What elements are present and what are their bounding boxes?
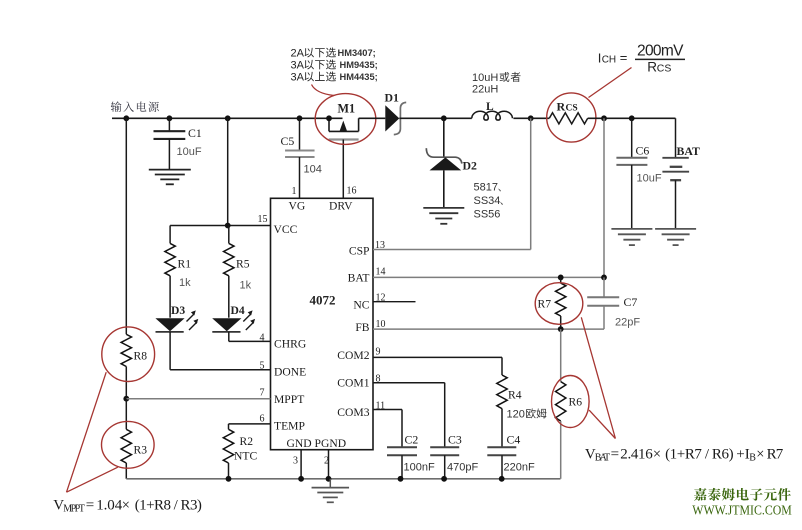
wire CSP horizontal to pin 13 [373,249,531,251]
node PGND pin2 junction [326,476,332,482]
resistor R6 [556,382,566,479]
svg-text:DONE: DONE [274,366,306,379]
node CSP tap junction [528,115,534,121]
svg-text:16: 16 [347,186,357,197]
label C1 [188,126,202,140]
wire C5 branch [299,118,301,150]
value 100nF for C2 [404,462,435,474]
pin name NC [353,299,369,312]
resistor R7 [556,277,566,329]
annotation circle around Rcs [547,93,596,142]
label C6 [636,144,650,158]
value 22pF for C7 [615,317,640,329]
svg-text:9: 9 [376,347,381,358]
node VCC/R5 junction [225,223,231,229]
annotation leader from note to M1 circle [312,85,335,96]
svg-text:3: 3 [293,456,298,467]
led D3 [155,310,198,332]
diode D1 [385,102,406,134]
label R2 [240,435,254,448]
watermark line1 [694,488,791,501]
annotation leader R3 to VMPPT formula [67,467,118,492]
ic U1 4072 outline [271,198,374,449]
node C1 junction [167,115,173,121]
label M1 [338,102,356,116]
svg-text:14: 14 [376,267,386,278]
svg-text:C2: C2 [405,433,419,447]
svg-text:10uF: 10uF [177,146,202,158]
svg-text:=: = [611,446,619,462]
capacitor C1 [154,131,186,169]
wire left vertical rail to R8 [125,118,127,334]
svg-text:HM9435;: HM9435; [340,60,378,70]
pin name GND PGND [287,437,347,450]
svg-text:6: 6 [260,414,265,425]
svg-text:+I: +I [736,446,749,462]
pin 6 label [260,414,265,425]
pin name COM2 [337,349,369,362]
svg-text:R4: R4 [508,389,522,402]
pin name VCC [274,223,298,236]
capacitor C2 [387,447,417,479]
label R4 [508,389,522,402]
svg-text:R5: R5 [236,258,250,271]
wire CSP vertical [530,118,532,249]
svg-text:200mV: 200mV [637,43,684,60]
pin name BAT [348,272,370,285]
value 120 ohm for R4 [507,408,547,420]
value D2 types line2 [474,195,503,207]
svg-text:BAT: BAT [677,144,701,158]
node MPPT junction [123,396,129,402]
wire D1 to L [399,117,472,119]
label D1 [385,91,400,105]
svg-text:D1: D1 [385,91,400,105]
resistor R8 [121,334,131,398]
value 10uF for C6 [637,173,662,185]
node C4 bottom junction [499,476,505,482]
wire D2 branch [443,118,445,157]
svg-text:×: × [653,446,661,462]
inductor L [472,111,513,120]
pin 12 label [376,293,386,304]
annotation circle around M1 [315,94,376,145]
svg-text:C1: C1 [188,126,202,140]
wire MPPT line [126,398,270,400]
svg-text:10uH: 10uH [472,72,498,84]
svg-text:×: × [756,446,764,462]
wire BAT pin line [373,276,604,278]
annotation leader R7 to VBAT formula [581,317,615,438]
transistor M1 body [329,118,359,198]
svg-text:B: B [749,453,756,464]
node C5 tap junction [297,115,303,121]
svg-text:HM4435;: HM4435; [340,72,378,82]
label C3 [448,433,462,447]
watermark line2 [692,503,792,518]
wire TEMP pin line [229,423,271,425]
wire NC stub [373,301,416,303]
svg-text:TEMP: TEMP [274,420,305,433]
svg-text:BAT: BAT [595,453,610,464]
svg-text:SS56: SS56 [474,209,501,221]
svg-text:COM1: COM1 [337,377,369,390]
svg-text:220nF: 220nF [504,462,535,474]
pin name DRV [329,200,353,213]
wire PGND pin 2 [328,450,330,479]
label D2 [463,159,478,173]
pin 13 label [375,240,385,251]
svg-text:R2: R2 [240,435,254,448]
pin name CSP [349,245,370,258]
wire top rail left segment [112,117,343,119]
svg-text:=: = [620,50,628,65]
annotation circle around R6 [552,376,590,428]
value L line1 [472,72,521,84]
svg-text:R7: R7 [767,446,784,462]
formula ICH [598,43,685,75]
pin 7 label [260,388,265,399]
formula VMPPT [53,497,202,514]
svg-text:BAT: BAT [348,272,370,285]
svg-text:M1: M1 [338,102,356,116]
value 1k for R1 [179,277,191,289]
svg-text:(1+R8 / R3): (1+R8 / R3) [135,497,202,513]
ground under D2 [423,208,464,224]
node C3 bottom junction [441,476,447,482]
node C6 junction [629,115,635,121]
capacitor C6 [616,118,647,229]
svg-text:1.04: 1.04 [96,497,123,513]
svg-text:VG: VG [289,200,306,213]
pin name VG [289,200,306,213]
annotation text M1 selection line3 [291,71,378,83]
svg-text:L: L [486,101,494,113]
pin name DONE [274,366,306,379]
svg-text:R8: R8 [134,350,148,363]
node C2 bottom junction [398,476,404,482]
label R7 [538,298,552,311]
svg-text:C6: C6 [636,144,650,158]
wire L to Rcs [513,117,549,119]
led D4 [212,310,255,332]
svg-text:3A: 3A [291,72,305,84]
svg-text:MPPT: MPPT [274,393,304,406]
annotation text M1 selection line1 [291,47,376,59]
value 470pF for C3 [447,462,478,474]
wire GND pin 3 [300,450,302,479]
pin 15 label [258,214,268,225]
label R8 [134,350,148,363]
pin name FB [355,321,369,334]
capacitor C3 [430,447,459,479]
value D2 types line1 [474,182,501,194]
svg-text:DRV: DRV [329,200,353,213]
svg-text:1k: 1k [240,280,252,292]
label R3 [134,444,148,457]
wire D4 to CHRG pin 4 [229,332,271,342]
wire VCC vertical from rail [227,118,229,225]
svg-text:7: 7 [260,388,265,399]
annotation leader from Rcs circle to formula [589,68,632,98]
wire VCC pin line [170,225,270,227]
pin name COM3 [337,406,369,419]
svg-text:3A: 3A [291,60,305,72]
node FB/R7/R6 junction [558,326,564,332]
ground under PGND [312,479,350,503]
svg-text:R: R [647,60,657,75]
annotation text M1 selection line2 [291,59,378,71]
wire bottom ground rail [126,478,560,480]
wire COM2 to R4 [373,357,502,375]
resistor R3 [121,399,131,479]
pin 8 label [376,374,381,385]
value 1k for R5 [240,280,252,292]
svg-text:470pF: 470pF [447,462,478,474]
svg-text:×: × [122,497,130,513]
pin 2 label [324,456,329,467]
wire COM1 to C3 [373,383,445,448]
svg-text:CSP: CSP [349,245,370,258]
resistor R2 NTC [223,424,233,479]
svg-text:MPPT: MPPT [63,504,85,515]
pin 11 label [376,401,386,412]
wire C1 branch [168,118,170,131]
wire COM3 to C2 [373,410,402,448]
svg-text:R3: R3 [134,444,148,457]
value 104 for C5 [304,164,322,176]
svg-text:10uF: 10uF [637,173,662,185]
svg-text:C7: C7 [624,295,638,309]
svg-text:2.416: 2.416 [620,446,653,462]
label R6 [569,396,583,409]
svg-text:2A: 2A [291,48,305,60]
pin 3 label [293,456,298,467]
pin 14 label [376,267,386,278]
pin name CHRG [274,338,307,351]
wire FB pin line [373,328,604,330]
capacitor C7 [587,277,619,329]
annotation circle around R8 [102,327,155,382]
node BAT/C7 junction [601,275,607,281]
svg-text:WWW.JTMIC.COM: WWW.JTMIC.COM [692,503,792,518]
svg-text:C5: C5 [281,134,295,148]
svg-text:=: = [86,497,94,513]
node D2 junction [441,115,447,121]
node GND pin3 junction [298,476,304,482]
wire Rcs to battery node [588,117,676,119]
svg-text:VCC: VCC [274,223,298,236]
label 4072 [310,293,336,308]
svg-text:120: 120 [507,409,525,421]
capacitor C4 [487,447,516,479]
pin 10 label [376,319,386,330]
pin name COM1 [337,377,369,390]
svg-text:100nF: 100nF [404,462,435,474]
resistor R1 [165,226,175,318]
ground under C6 [611,229,652,245]
svg-text:HM3407;: HM3407; [338,48,376,58]
svg-text:R1: R1 [178,258,192,271]
label BAT [677,144,701,158]
node VCC tap junction [225,115,231,121]
label L [486,101,494,113]
annotation leader R6 to VBAT formula [589,410,615,438]
pin 4 label [260,333,265,344]
svg-text:R6: R6 [569,396,583,409]
wire battery-sense vertical from rail [603,118,605,277]
svg-text:C3: C3 [448,433,462,447]
label C2 [405,433,419,447]
node R2 bottom junction [226,476,232,482]
value 220nF for C4 [504,462,535,474]
ground under C1 [149,170,191,185]
value 10uF for C1 [177,146,202,158]
node Rcs output junction [601,115,607,121]
wire D3 to DONE pin 5 [170,332,270,370]
label NTC [234,450,257,463]
svg-text:D2: D2 [463,159,478,173]
label Rcs [557,100,578,114]
svg-text:C4: C4 [507,433,521,447]
pin 16 label [347,186,357,197]
svg-text:CH: CH [602,55,616,66]
wire C5 to VG pin 1 [299,157,301,198]
pin 5 label [260,361,265,372]
wire FB to R6 [560,329,562,382]
node M1 source junction [326,115,332,121]
pin name MPPT [274,393,304,406]
svg-text:1k: 1k [179,277,191,289]
battery BAT [662,118,689,229]
label D4 [231,304,245,317]
resistor Rcs [549,113,587,124]
capacitor C5 [285,151,315,158]
value D2 types line3 [474,209,501,221]
wire M1 drain to D1 [359,117,386,119]
pin name TEMP [274,420,305,433]
svg-text:R: R [557,100,566,114]
node BAT/R7 junction [558,275,564,281]
resistor R4 [497,375,507,447]
svg-text:5817: 5817 [474,182,498,194]
svg-text:COM2: COM2 [337,349,369,362]
svg-text:104: 104 [304,164,322,176]
svg-text:22pF: 22pF [615,317,640,329]
node VIN input label 输入电源 [111,101,159,112]
node input junction A [123,115,129,121]
svg-text:CS: CS [657,63,672,75]
svg-text:CS: CS [566,104,578,114]
label C7 [624,295,638,309]
svg-text:22uH: 22uH [472,84,498,96]
svg-text:(1+R7 / R6): (1+R7 / R6) [665,446,734,462]
svg-text:CHRG: CHRG [274,338,307,351]
resistor R5 [224,226,234,318]
svg-text:GND PGND: GND PGND [287,437,347,450]
svg-text:R7: R7 [538,298,552,311]
pin 1 label [292,186,297,197]
svg-text:1: 1 [292,186,297,197]
svg-text:FB: FB [355,321,369,334]
annotation leader R8 to VMPPT formula [67,372,107,492]
svg-text:COM3: COM3 [337,406,369,419]
diode D2 zener [426,148,462,208]
annotation circle around R7 [535,283,583,325]
value L line2 [472,84,498,96]
label R1 [178,258,192,271]
svg-text:NC: NC [353,299,369,312]
pin 9 label [376,347,381,358]
svg-text:15: 15 [258,214,268,225]
svg-text:D4: D4 [231,304,245,317]
svg-text:NTC: NTC [234,450,257,463]
svg-text:SS34: SS34 [474,195,501,207]
ground under battery [655,229,696,245]
svg-text:D3: D3 [171,304,185,317]
label C4 [507,433,521,447]
annotation circle around R3 [102,421,155,468]
label R5 [236,258,250,271]
label D3 [171,304,185,317]
label C5 [281,134,295,148]
svg-text:4072: 4072 [310,293,336,308]
formula VBAT [585,446,784,463]
